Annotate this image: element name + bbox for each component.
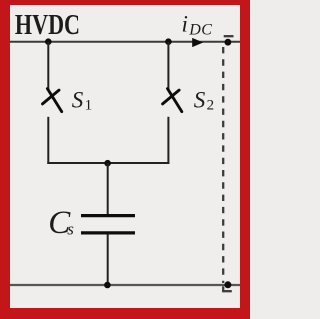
- capacitor Cs bottom plate: [81, 231, 135, 234]
- switch S1 breaker cross stroke: [43, 90, 60, 104]
- wire bottom DC bus: [10, 284, 240, 286]
- switch S2 breaker blade: [168, 89, 182, 112]
- frame red border right: [240, 0, 250, 319]
- dashed boundary bottom corner vertical dash: [222, 286, 224, 292]
- svg-text:2: 2: [207, 97, 215, 113]
- svg-text:S: S: [194, 87, 206, 112]
- label S2: [194, 87, 214, 113]
- wire S2 top lead: [167, 42, 169, 89]
- node junction dot on top bus at S1 branch: [45, 38, 52, 45]
- node junction dot on top bus at S2 branch: [165, 38, 172, 45]
- dashed boundary top corner dash: [224, 35, 234, 37]
- node junction dot bottom bus at capacitor: [104, 282, 111, 289]
- wire S2 bottom lead: [167, 117, 169, 164]
- svg-text:S: S: [72, 87, 84, 112]
- svg-text:HVDC: HVDC: [15, 11, 80, 41]
- wire top DC bus: [10, 41, 240, 43]
- arrow i_DC direction on top bus: [192, 38, 203, 47]
- node terminal dot bottom right: [224, 281, 231, 288]
- wire middle horizontal joining S1 and S2: [47, 162, 169, 164]
- dashed boundary bottom corner horizontal dash: [222, 290, 232, 292]
- frame red border top: [0, 0, 250, 5]
- svg-text:DC: DC: [188, 21, 212, 38]
- wire S1 top lead: [47, 42, 49, 89]
- node terminal dot top right: [225, 39, 232, 46]
- wire capacitor top lead: [107, 163, 109, 215]
- node junction dot middle: [104, 160, 111, 167]
- current label i_DC: [182, 12, 213, 39]
- svg-text:1: 1: [85, 97, 93, 113]
- label S1: [72, 87, 92, 113]
- dashed boundary vertical line: [222, 47, 224, 283]
- frame red border bottom: [0, 308, 250, 319]
- wire S1 bottom lead: [47, 117, 49, 164]
- capacitor Cs top plate: [81, 214, 135, 217]
- switch S1 breaker blade: [47, 89, 61, 112]
- frame red border left: [0, 0, 10, 319]
- svg-text:i: i: [182, 12, 188, 37]
- wire capacitor bottom lead: [107, 234, 109, 286]
- switch S2 breaker cross stroke: [163, 90, 180, 104]
- svg-text:s: s: [67, 220, 74, 239]
- label Cs: [48, 205, 74, 241]
